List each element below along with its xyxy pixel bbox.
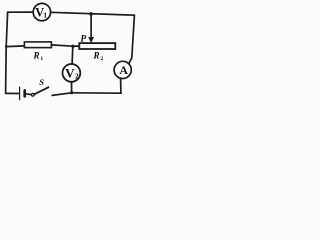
svg-text:R: R <box>32 51 39 61</box>
rheostat R2 <box>79 43 115 62</box>
svg-text:1: 1 <box>44 12 48 20</box>
node junction bottom (V2 tap) <box>70 91 73 94</box>
wire ammeter to bottom <box>120 78 122 93</box>
svg-text:V: V <box>65 66 75 81</box>
svg-text:S: S <box>39 77 44 87</box>
wire middle centre segment <box>51 45 79 46</box>
svg-text:P: P <box>80 34 86 44</box>
voltmeter V2 <box>63 46 81 92</box>
voltmeter V1 <box>33 3 50 20</box>
wire right vertical <box>129 15 135 64</box>
wire left vertical <box>6 12 8 93</box>
wire middle left segment <box>6 45 24 48</box>
resistor R1 <box>24 42 51 62</box>
node junction left middle <box>5 45 8 48</box>
battery cell <box>6 87 32 100</box>
ammeter A <box>114 61 131 78</box>
wire top right segment <box>51 12 135 15</box>
switch S <box>32 77 49 96</box>
svg-text:1: 1 <box>40 56 43 62</box>
svg-text:R: R <box>92 51 99 61</box>
svg-text:2: 2 <box>75 72 79 80</box>
wire switch to junction <box>52 93 71 96</box>
node junction on top wire <box>89 12 93 16</box>
svg-text:2: 2 <box>101 56 104 62</box>
wire bottom right segment <box>72 92 122 94</box>
slider arrow P of rheostat <box>80 14 94 44</box>
svg-text:A: A <box>119 63 128 77</box>
wire top left segment <box>8 11 34 13</box>
node junction middle (V2 tap) <box>71 45 74 48</box>
